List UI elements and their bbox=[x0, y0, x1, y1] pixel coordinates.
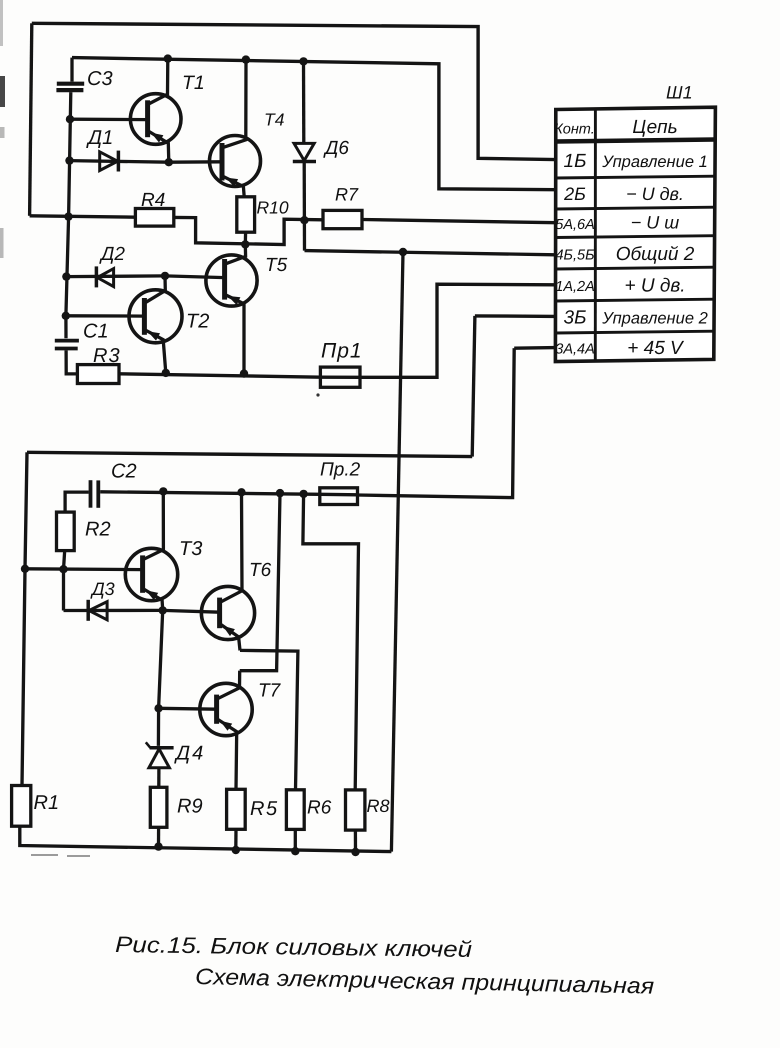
svg-text:R9: R9 bbox=[177, 796, 203, 818]
svg-text:4Б,5Б: 4Б,5Б bbox=[555, 248, 594, 264]
svg-text:Т2: Т2 bbox=[186, 311, 209, 333]
svg-text:Ш1: Ш1 bbox=[666, 83, 693, 103]
svg-text:Пр1: Пр1 bbox=[321, 340, 363, 363]
svg-text:Т6: Т6 bbox=[249, 560, 272, 581]
svg-text:Д2: Д2 bbox=[99, 244, 125, 265]
svg-text:1Б: 1Б bbox=[564, 151, 587, 172]
svg-text:R3: R3 bbox=[93, 345, 121, 367]
svg-text:Т1: Т1 bbox=[182, 72, 205, 94]
svg-text:Общий 2: Общий 2 bbox=[616, 244, 695, 265]
svg-text:Пр.2: Пр.2 bbox=[320, 460, 361, 481]
svg-text:− U дв.: − U дв. bbox=[626, 184, 684, 204]
svg-text:R7: R7 bbox=[335, 185, 359, 205]
svg-text:С1: С1 bbox=[83, 321, 109, 343]
svg-text:R5: R5 bbox=[250, 798, 279, 820]
svg-text:R1: R1 bbox=[34, 792, 60, 814]
svg-text:Конт.: Конт. bbox=[554, 122, 595, 138]
svg-text:− U ш: − U ш bbox=[631, 213, 680, 233]
svg-text:R2: R2 bbox=[85, 519, 111, 541]
svg-text:R6: R6 bbox=[307, 798, 332, 819]
svg-text:Д4: Д4 bbox=[174, 743, 205, 765]
svg-text:2Б: 2Б bbox=[563, 184, 586, 204]
svg-text:Д1: Д1 bbox=[86, 127, 113, 149]
svg-text:Управление 1: Управление 1 bbox=[601, 153, 708, 171]
svg-text:Рис.15. Блок силовых ключей: Рис.15. Блок силовых ключей bbox=[115, 932, 473, 962]
svg-text:+ U дв.: + U дв. bbox=[624, 276, 685, 297]
svg-text:С2: С2 bbox=[111, 461, 137, 483]
svg-text:1А,2А: 1А,2А bbox=[555, 279, 595, 295]
svg-text:Д3: Д3 bbox=[90, 579, 115, 599]
svg-text:R4: R4 bbox=[141, 190, 165, 211]
svg-text:С3: С3 bbox=[87, 68, 113, 90]
svg-text:5А,6А: 5А,6А bbox=[555, 217, 595, 233]
svg-text:Цепь: Цепь bbox=[632, 117, 677, 138]
svg-text:Т7: Т7 bbox=[258, 681, 282, 702]
svg-text:Управление 2: Управление 2 bbox=[601, 310, 708, 328]
svg-text:3Б: 3Б bbox=[564, 308, 587, 329]
svg-text:+ 45 V: + 45 V bbox=[627, 338, 685, 359]
svg-text:R10: R10 bbox=[257, 198, 289, 218]
svg-text:Т3: Т3 bbox=[179, 538, 202, 560]
svg-text:R8: R8 bbox=[367, 796, 390, 816]
svg-text:Т5: Т5 bbox=[265, 255, 288, 276]
svg-text:Д6: Д6 bbox=[323, 138, 349, 159]
svg-text:3А,4А: 3А,4А bbox=[555, 342, 595, 358]
svg-text:Т4: Т4 bbox=[264, 110, 285, 130]
